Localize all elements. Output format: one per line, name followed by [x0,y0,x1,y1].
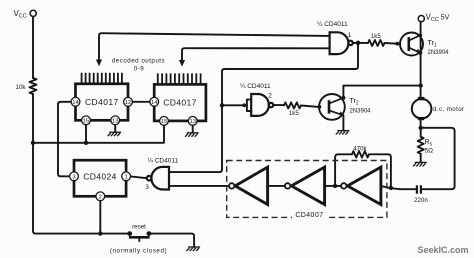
svg-text:1: 1 [124,174,127,180]
svg-text:d.c. motor: d.c. motor [433,106,465,113]
svg-text:2: 2 [99,194,102,200]
svg-text:15: 15 [83,118,89,124]
svg-text:(normally closed): (normally closed) [110,248,167,255]
svg-text:1: 1 [348,32,352,39]
svg-text:2: 2 [268,93,272,100]
svg-text:CD4024: CD4024 [83,172,117,182]
svg-text:1k5: 1k5 [371,33,382,40]
svg-text:¼ CD4011: ¼ CD4011 [240,83,271,90]
svg-text:5Ω: 5Ω [425,148,434,155]
svg-text:0-9: 0-9 [134,66,145,73]
svg-text:2N3904: 2N3904 [350,109,372,115]
svg-text:470k: 470k [353,145,367,152]
svg-text:12: 12 [125,100,131,106]
svg-text:CD4017: CD4017 [85,97,119,107]
svg-text:15: 15 [161,119,167,125]
svg-text:reset: reset [132,224,146,231]
svg-text:10k: 10k [16,84,27,91]
svg-text:14: 14 [72,100,79,106]
svg-text:2N3904: 2N3904 [428,50,450,56]
svg-text:14: 14 [151,100,158,106]
svg-text:CD4017: CD4017 [163,97,197,107]
svg-text:13: 13 [189,119,195,125]
svg-text:¼ CD4011: ¼ CD4011 [148,157,179,164]
svg-text:13: 13 [112,118,118,124]
svg-text:¼ CD4011: ¼ CD4011 [317,21,348,28]
svg-text:decoded outputs: decoded outputs [112,58,165,65]
svg-text:CD4007: CD4007 [295,212,323,219]
svg-text:SeekIC.com: SeekIC.com [418,245,469,255]
svg-text:3: 3 [145,184,149,191]
svg-text:220n: 220n [414,197,428,204]
svg-text:1k5: 1k5 [289,110,300,117]
svg-text:3: 3 [72,174,75,180]
